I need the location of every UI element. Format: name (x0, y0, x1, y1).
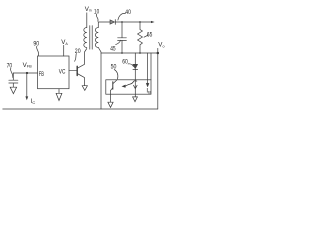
capacitor C70 (9, 73, 18, 87)
transformer T10 primary winding (84, 28, 87, 48)
wire rail to LED (134, 53, 136, 64)
wire Vo down (157, 53, 159, 109)
leader 45 (116, 40, 121, 44)
label 50 (111, 64, 117, 71)
stub VA to FB box (63, 45, 65, 56)
svg-text:IB: IB (146, 87, 151, 94)
transformer T10 secondary winding (95, 28, 98, 48)
bottom rail (3, 108, 158, 110)
wire rail to box right pin (147, 53, 149, 83)
wire VC to transistor base (69, 70, 77, 72)
capacitor C45 (118, 22, 127, 53)
leader 40 (118, 13, 126, 20)
transformer T10 core (90, 26, 92, 50)
leader 50 (114, 69, 118, 79)
wire Vfb node to FB box (13, 72, 37, 74)
svg-text:50: 50 (111, 64, 117, 71)
svg-text:VC: VC (59, 68, 66, 75)
wire Ic sense (26, 73, 28, 97)
emitter arrow below box (108, 94, 113, 107)
resistor R65 (138, 22, 143, 53)
label 45 (110, 46, 116, 53)
label 65 (147, 32, 153, 39)
label Vo (158, 42, 164, 49)
label 70 (7, 62, 13, 69)
label 90 (33, 40, 39, 47)
label Vin (85, 6, 92, 13)
optocoupler box 60 (106, 80, 151, 94)
label 10 (94, 8, 100, 15)
label FB (39, 71, 44, 78)
wire LED cathode through box (134, 69, 136, 96)
rail secondary return (101, 52, 158, 54)
wire secondary bottom riser (98, 48, 101, 110)
stub Vo (157, 48, 159, 53)
svg-text:IC: IC (31, 98, 36, 105)
arrowhead output line (151, 21, 155, 23)
svg-text:VA: VA (61, 39, 68, 46)
wire Vin to primary (86, 13, 88, 28)
junction dot cap45 bottom (121, 52, 123, 54)
leader 10 (96, 14, 98, 21)
leader 90 (37, 46, 39, 55)
node dot Vfb (26, 72, 28, 74)
arrowhead on LED wire (134, 85, 138, 88)
label VA (61, 39, 68, 46)
svg-text:45: 45 (110, 46, 116, 53)
leader 60 (128, 64, 133, 67)
LED D60 (133, 64, 138, 68)
svg-text:VFB: VFB (23, 62, 33, 69)
emitter arrow Q20 (82, 86, 87, 91)
diode D40 (110, 20, 115, 24)
light arrow opto (126, 81, 137, 86)
label Ic (31, 98, 36, 105)
label VC (59, 68, 66, 75)
arrow below box LED (133, 97, 138, 102)
svg-text:70: 70 (7, 62, 13, 69)
label 60 (122, 58, 128, 65)
node dot Vo (157, 52, 160, 55)
label Ib (146, 87, 151, 94)
svg-text:Vin: Vin (85, 6, 92, 13)
label Vfb (23, 62, 33, 69)
ground arrow under capacitor (10, 87, 16, 94)
svg-text:60: 60 (122, 58, 128, 65)
wire rail to box right edge (150, 53, 152, 80)
wire secondary top to diode (98, 22, 109, 28)
label 20 (75, 48, 81, 55)
svg-text:20: 20 (75, 48, 81, 55)
arrow below FB box (56, 89, 62, 101)
junction dot cap45 top (121, 21, 123, 23)
leader 70 (11, 68, 13, 77)
FB box U90 (38, 56, 70, 89)
junction dot res65 top (139, 21, 141, 23)
arrow Ib (146, 83, 149, 87)
svg-text:40: 40 (125, 9, 131, 16)
wire output top line (115, 21, 151, 23)
leader 20 (75, 53, 77, 61)
junction dot res65 bottom (139, 52, 141, 54)
arrow Ic (25, 96, 28, 100)
svg-text:Vo: Vo (158, 42, 164, 49)
phototransistor Q50 (112, 82, 114, 90)
label 40 (125, 9, 131, 16)
leader 65 (144, 35, 148, 37)
transistor Q20 (76, 66, 78, 75)
svg-text:FB: FB (39, 71, 44, 78)
